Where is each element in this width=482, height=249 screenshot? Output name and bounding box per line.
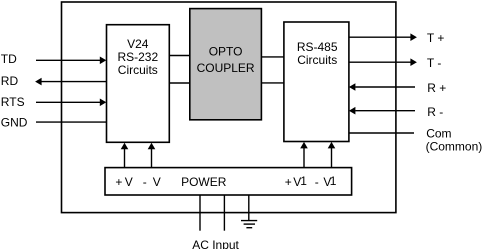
- svg-text:-: -: [315, 175, 319, 189]
- svg-text:+: +: [115, 175, 122, 189]
- svg-text:T +: T +: [427, 31, 444, 45]
- svg-text:OPTO: OPTO: [209, 45, 243, 59]
- svg-text:(Common): (Common): [426, 140, 482, 154]
- svg-text:+: +: [285, 175, 292, 189]
- svg-text:RD: RD: [1, 74, 19, 88]
- svg-text:V: V: [153, 175, 161, 189]
- svg-text:Circuits: Circuits: [118, 63, 158, 77]
- svg-text:TD: TD: [1, 52, 17, 66]
- svg-text:V: V: [125, 175, 133, 189]
- svg-text:V24: V24: [127, 37, 149, 51]
- svg-text:Com: Com: [426, 126, 451, 140]
- svg-text:AC Input: AC Input: [192, 238, 239, 249]
- svg-text:RTS: RTS: [1, 95, 25, 109]
- svg-text:-: -: [143, 175, 147, 189]
- svg-text:R -: R -: [427, 105, 443, 119]
- svg-text:T -: T -: [427, 56, 441, 70]
- svg-text:1: 1: [330, 174, 337, 188]
- svg-text:COUPLER: COUPLER: [197, 61, 255, 75]
- svg-text:R +: R +: [427, 81, 446, 95]
- svg-text:POWER: POWER: [181, 175, 227, 189]
- svg-text:Circuits: Circuits: [297, 53, 337, 67]
- svg-text:1: 1: [300, 174, 307, 188]
- svg-text:RS-232: RS-232: [117, 50, 158, 64]
- svg-text:GND: GND: [1, 116, 28, 130]
